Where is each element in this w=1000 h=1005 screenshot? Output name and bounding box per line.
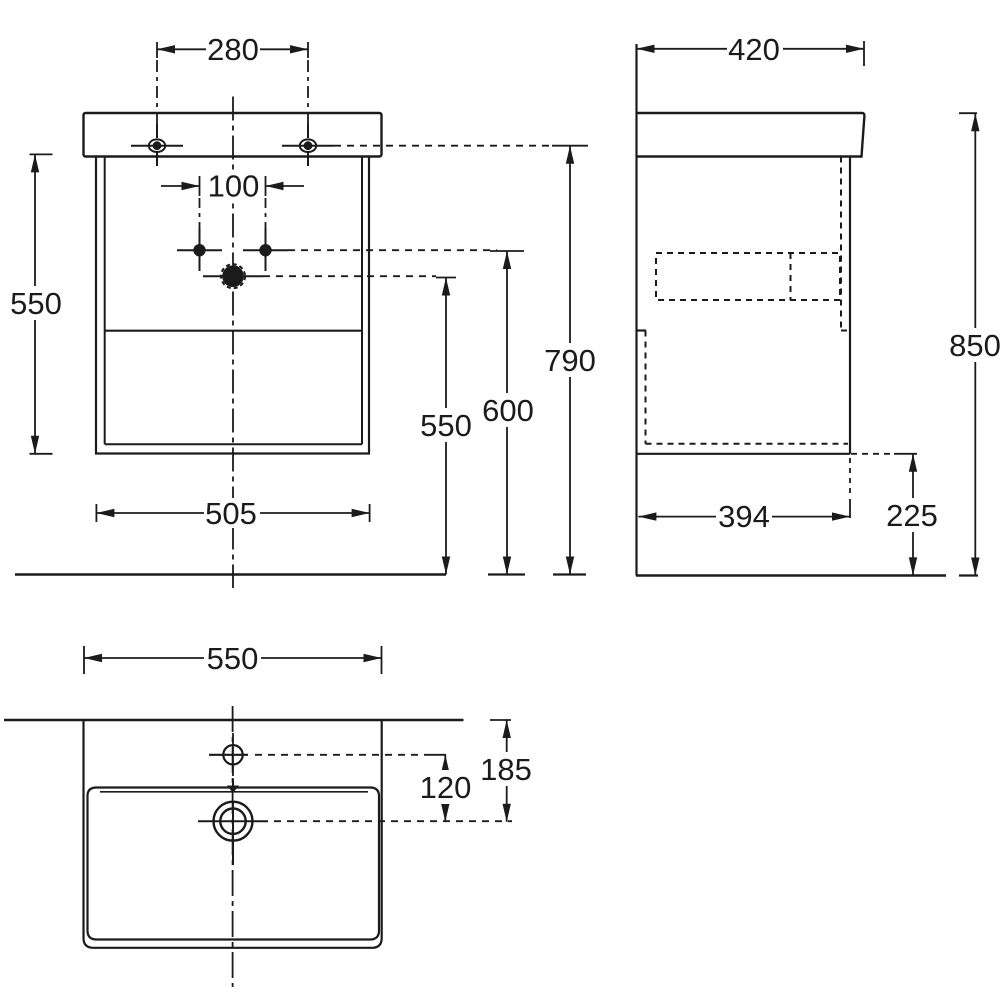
dim 225 label	[884, 498, 941, 532]
svg-text:420: 420	[728, 32, 780, 67]
dim 120 label	[417, 770, 474, 804]
svg-text:100: 100	[208, 169, 260, 204]
side view drawer front inner dashed	[840, 157, 842, 331]
dim 100 line left arrow	[161, 185, 200, 187]
side view cabinet front edge	[849, 157, 851, 454]
front view cabinet outer left wall	[95, 157, 97, 454]
dim 550 plan line	[84, 657, 382, 659]
projection dotted bottom to 225 dim	[851, 453, 894, 455]
dim 100 extension right	[265, 176, 267, 196]
dim 394 line	[638, 516, 850, 518]
dim 420 line	[637, 48, 865, 50]
svg-text:850: 850	[949, 328, 1000, 363]
left fixing hole dot	[177, 228, 222, 271]
side view countertop	[637, 113, 865, 157]
dim 850 label	[947, 328, 1000, 362]
projection dotted line tap holes to 790 dim	[334, 145, 552, 147]
dim 505 line	[96, 512, 369, 514]
dim 185 line	[506, 720, 508, 822]
dim 225 line	[912, 454, 914, 576]
projection dotted line dots to 600 dim	[288, 249, 497, 251]
floor line front view	[15, 573, 446, 575]
dim 550 right (drain height)	[436, 277, 456, 279]
dim 550 left line	[34, 154, 36, 453]
plan bowl rim second line	[100, 791, 368, 793]
projection dotted front edge to 394 dim	[849, 458, 851, 498]
dim 550 plan label	[204, 643, 261, 673]
projection dotted drain to 185 dim	[274, 820, 512, 822]
dim 550 left label	[8, 286, 64, 320]
dim 100 line right arrow	[266, 185, 305, 187]
dim 394 label	[716, 501, 772, 531]
svg-text:185: 185	[480, 752, 532, 787]
side view bottom inner dashed	[646, 443, 849, 445]
dim 420 tick right	[863, 41, 865, 66]
side view drawer box dashed	[656, 253, 840, 300]
front view drawer divider	[105, 330, 362, 332]
plan basin outer	[84, 720, 382, 948]
dim 280 label	[206, 34, 260, 64]
dim 185 label	[478, 752, 535, 786]
front view cabinet outer right wall	[368, 157, 370, 454]
dim 280 extension left	[156, 42, 158, 58]
front view countertop	[84, 113, 382, 157]
right tap hole	[282, 124, 334, 167]
dim 420 label	[727, 34, 783, 64]
dim 120 line	[444, 755, 446, 822]
left tap hole	[131, 124, 183, 167]
svg-text:600: 600	[482, 393, 534, 428]
dim 120 top tick	[425, 754, 446, 756]
plan drain	[198, 801, 268, 865]
front view cabinet bottom inner	[105, 443, 362, 445]
plan faucet hole	[209, 733, 248, 776]
drain hole front view	[203, 264, 263, 288]
dim 550 plan ticks	[83, 646, 85, 674]
svg-text:550: 550	[10, 286, 62, 321]
dim 550 left ticks	[30, 153, 53, 155]
plan center line	[232, 706, 234, 987]
plan wall line	[4, 719, 464, 722]
svg-text:505: 505	[205, 496, 257, 531]
front view cabinet inner right wall	[361, 157, 363, 445]
projection dotted faucet to 120 dim	[255, 754, 425, 756]
plan bowl inner	[88, 788, 380, 940]
side view back notch	[637, 329, 647, 331]
svg-text:225: 225	[886, 498, 938, 533]
dim 850 top tick	[959, 112, 977, 114]
svg-text:120: 120	[420, 770, 472, 805]
dim 280 extension right	[307, 42, 309, 58]
dim 790 (tap holes height)	[552, 145, 588, 147]
projection dotted line drain to 550 dim	[263, 275, 436, 277]
svg-text:280: 280	[207, 32, 259, 67]
side view wall line	[635, 44, 637, 576]
svg-text:790: 790	[544, 343, 596, 378]
floor line side view	[636, 574, 946, 576]
side view cabinet bottom	[637, 453, 851, 455]
front view vertical center line	[232, 97, 234, 589]
plan bowl rim arrow	[227, 786, 239, 794]
dim 100 extension left	[199, 176, 201, 196]
svg-text:394: 394	[718, 499, 770, 534]
side view drawer divider dashed	[790, 253, 792, 300]
dim 600 (fixing holes height)	[490, 250, 524, 252]
svg-text:550: 550	[420, 408, 472, 443]
dim 505 label	[204, 498, 260, 528]
side view back panel dashed	[645, 331, 647, 444]
dim 280 line	[157, 48, 308, 50]
dim 505 ticks	[95, 504, 97, 522]
floor tick under 850 dim	[959, 574, 978, 576]
svg-text:550: 550	[207, 641, 259, 676]
dim 185 top tick	[490, 719, 511, 721]
front view cabinet inner left wall	[104, 157, 106, 445]
dim 100 label	[206, 171, 261, 202]
right fixing hole dot	[243, 228, 288, 271]
front view cabinet bottom outer	[95, 452, 370, 454]
dim 850 line	[974, 113, 976, 575]
